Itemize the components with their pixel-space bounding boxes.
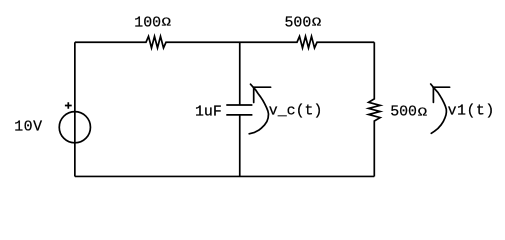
svg-text:v1(t): v1(t) xyxy=(448,104,495,120)
svg-text:100: 100 xyxy=(134,16,161,32)
svg-text:10V: 10V xyxy=(14,119,42,135)
svg-text:v_c(t): v_c(t) xyxy=(269,104,323,120)
svg-text:500: 500 xyxy=(390,105,417,121)
svg-text:Ω: Ω xyxy=(162,16,172,30)
svg-text:Ω: Ω xyxy=(312,16,322,30)
svg-text:500: 500 xyxy=(285,16,312,32)
svg-text:Ω: Ω xyxy=(418,106,428,120)
svg-text:1uF: 1uF xyxy=(195,105,222,121)
